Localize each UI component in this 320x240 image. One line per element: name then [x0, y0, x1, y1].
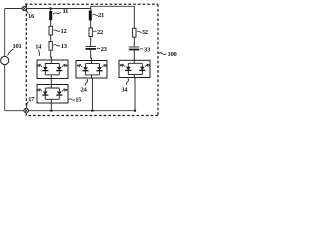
- svg-text:100: 100: [168, 51, 178, 58]
- LED pair in box 4: [120, 60, 150, 78]
- svg-text:23: 23: [101, 46, 108, 53]
- wire: bottom bus: [5, 110, 136, 112]
- LED module box 2: [37, 85, 68, 104]
- resistor 21 (filled): [89, 11, 92, 21]
- wire: jumper from branch 2 to branch 3: [91, 6, 135, 8]
- junction dot branch2 bottom: [91, 110, 93, 112]
- wire: branch1 R11-R12: [50, 20, 52, 26]
- svg-text:33: 33: [144, 47, 151, 54]
- svg-text:12: 12: [61, 28, 68, 35]
- label 16 with pointer: [26, 11, 35, 21]
- label 13 with pointer: [54, 43, 68, 50]
- wire: box3 to bottom bus: [91, 78, 93, 111]
- svg-text:24: 24: [81, 87, 88, 94]
- label 11 with pointer: [53, 8, 68, 15]
- resistor 32 (open): [133, 28, 136, 37]
- label 32 with pointer: [137, 29, 149, 36]
- wire: branch2 riser: [90, 9, 92, 11]
- svg-text:32: 32: [142, 29, 149, 36]
- label 24 with brace pointer: [81, 79, 88, 94]
- terminal node 16: [22, 6, 26, 10]
- label 23 with pointer: [97, 46, 108, 53]
- svg-text:101: 101: [13, 43, 22, 50]
- svg-text:17: 17: [28, 96, 35, 103]
- wire: branch3 riser: [133, 6, 135, 28]
- svg-text:11: 11: [63, 8, 69, 15]
- svg-text:22: 22: [97, 29, 104, 36]
- resistor 11 (filled): [49, 11, 52, 20]
- label 21 with pointer: [93, 12, 105, 19]
- svg-text:16: 16: [28, 13, 35, 20]
- LED pair in box 3: [77, 60, 107, 78]
- resistor 22 (open): [89, 28, 92, 37]
- LED module box 3: [76, 61, 107, 79]
- label 17 with pointer: [27, 96, 36, 108]
- junction dot branch1 top: [50, 7, 52, 9]
- wire: branch1 riser: [50, 9, 52, 12]
- label 12 with pointer: [54, 28, 68, 35]
- label 14 with pointer: [35, 44, 42, 57]
- wire: box1 to box2 link: [50, 79, 52, 85]
- wire: branch2 R22-C23: [90, 37, 92, 47]
- LED module box 1: [37, 60, 68, 79]
- wire: branch3 R32-C33: [133, 37, 135, 46]
- AC source 101: [1, 56, 9, 64]
- wire: box4 to bottom bus: [134, 78, 136, 111]
- wire: branch1 R13 to module box 1: [50, 50, 53, 60]
- label 33 with pointer: [140, 47, 151, 54]
- terminal node 17: [24, 108, 29, 113]
- label 34 with brace pointer: [121, 78, 128, 93]
- svg-text:15: 15: [75, 97, 82, 104]
- resistor 13 (open): [49, 42, 52, 51]
- LED module box 4: [119, 60, 150, 77]
- wire: left vertical (source to top): [4, 9, 6, 57]
- enclosure 100 dashed border: [25, 4, 158, 115]
- label 15 with pointer: [69, 97, 83, 104]
- wire: branch1 R12-R13: [50, 35, 52, 42]
- capacitor 23: [86, 46, 97, 49]
- resistor 12 (open): [49, 26, 52, 35]
- LED pair in box 2: [37, 85, 67, 103]
- wire: top bus from AC source to branch 2: [5, 8, 91, 10]
- wire: branch2 C23 to module box 3: [90, 50, 93, 61]
- svg-text:21: 21: [98, 12, 104, 19]
- junction dot branch1 bottom: [50, 110, 52, 112]
- wire: branch3 C33 to module box 4: [133, 50, 135, 60]
- label 100 with pointer: [159, 51, 178, 58]
- wire: box2 to bottom bus: [50, 103, 52, 111]
- wire: branch2 R21-R22: [90, 21, 92, 28]
- label 22 with pointer: [93, 29, 104, 36]
- svg-text:13: 13: [61, 43, 68, 50]
- junction dot branch3 bottom: [134, 110, 136, 112]
- wire: left vertical (source to bottom): [4, 65, 6, 111]
- capacitor 33: [129, 47, 140, 50]
- svg-text:34: 34: [121, 86, 128, 93]
- LED pair in box 1: [37, 60, 67, 78]
- label 101 with pointer: [8, 43, 22, 56]
